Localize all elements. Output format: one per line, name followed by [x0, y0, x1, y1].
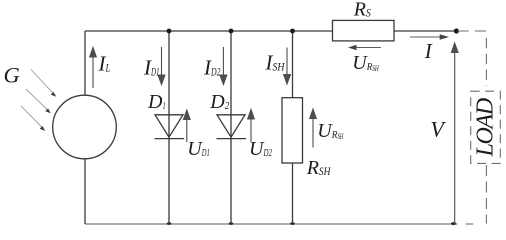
diode D1 [155, 115, 185, 139]
wire RSH branch lower [292, 163, 294, 224]
irradiance arrow 1 [31, 70, 56, 97]
irradiance arrow 2 [26, 89, 51, 113]
svg-text:ID2: ID2 [203, 55, 221, 79]
voltage arrow URS [348, 45, 381, 50]
wire D1 branch [168, 31, 170, 224]
voltage arrow UD2 [248, 110, 255, 143]
junction node bottom RSH [290, 222, 295, 225]
dashed wire to bottom rail [466, 223, 474, 225]
junction node top RSH [290, 29, 295, 34]
svg-text:LOAD: LOAD [473, 98, 499, 157]
wire D2 branch [230, 31, 232, 224]
wire top rail right segment [394, 30, 457, 32]
svg-text:ISH: ISH [265, 51, 286, 75]
voltage arrow UD1 [184, 110, 191, 142]
svg-text:UD1: UD1 [187, 138, 209, 160]
junction node bottom D1 [167, 222, 172, 225]
voltage arrow V [451, 43, 458, 224]
current source G circle [53, 95, 117, 159]
svg-text:G: G [4, 63, 20, 88]
dashed wire load bottom down [485, 165, 487, 224]
junction node top D1 [167, 29, 172, 34]
svg-text:UD2: UD2 [249, 138, 272, 160]
svg-text:D1: D1 [147, 91, 166, 113]
wire left branch lower [84, 159, 86, 225]
junction node bottom D2 [229, 222, 234, 225]
svg-text:IL: IL [98, 52, 111, 76]
diode D2 [217, 115, 247, 139]
svg-text:URSH: URSH [352, 52, 379, 74]
voltage arrow URSH [310, 109, 317, 148]
svg-text:I: I [424, 39, 433, 63]
current arrow ID1 [158, 47, 165, 85]
resistor RS [333, 20, 395, 41]
wire bottom rail [85, 223, 458, 225]
current arrow I [410, 34, 449, 40]
svg-text:V: V [430, 117, 446, 142]
dashed wire load left down [485, 38, 487, 86]
junction node output negative [451, 222, 456, 225]
junction node top D2 [229, 29, 234, 34]
wire RSH branch upper [292, 31, 294, 98]
svg-text:ID1: ID1 [143, 55, 160, 79]
wire left branch upper [84, 31, 86, 96]
svg-text:RS: RS [353, 0, 371, 20]
load box [471, 91, 501, 163]
dashed wire to load top [458, 30, 487, 32]
current arrow IL [90, 48, 97, 89]
resistor RSH [282, 98, 303, 163]
wire top rail left segment [85, 30, 333, 32]
current arrow ID2 [220, 47, 227, 85]
current arrow ISH [284, 48, 291, 85]
svg-text:RSH: RSH [306, 157, 332, 179]
svg-text:URSH: URSH [317, 120, 344, 142]
svg-text:D2: D2 [209, 91, 229, 113]
node output positive [454, 28, 459, 33]
irradiance arrow 3 [21, 106, 45, 131]
